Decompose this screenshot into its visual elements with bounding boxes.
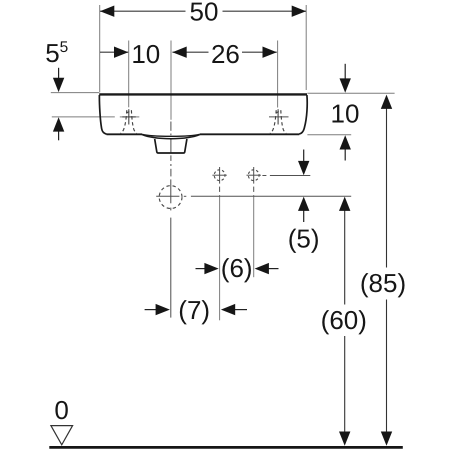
svg-text:26: 26 [211,39,240,69]
svg-text:10: 10 [331,98,360,128]
svg-text:(5): (5) [288,224,320,254]
svg-text:0: 0 [54,395,68,425]
svg-text:50: 50 [190,0,219,27]
svg-text:(85): (85) [360,268,406,298]
svg-text:(6): (6) [221,253,253,283]
svg-text:(60): (60) [321,305,367,335]
svg-text:(7): (7) [178,295,210,325]
svg-text:10: 10 [131,39,160,69]
